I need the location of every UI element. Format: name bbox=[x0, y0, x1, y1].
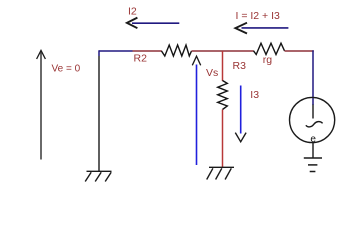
arrow I = I2 + I3 bbox=[242, 27, 289, 29]
arrow I2 bbox=[132, 22, 179, 24]
wire below source bbox=[312, 143, 314, 158]
wire red vertical lower bbox=[222, 110, 224, 168]
wire right vertical navy into source bbox=[312, 50, 314, 105]
svg-text:Ve = 0: Ve = 0 bbox=[52, 63, 81, 74]
node junction R3 branch: wire red vertical upper bbox=[222, 51, 224, 81]
wire horizontal maroon left of R2 bbox=[133, 50, 162, 52]
svg-text:rg: rg bbox=[263, 54, 272, 66]
ground middle bbox=[207, 167, 234, 179]
arrow I3 bbox=[240, 86, 242, 134]
resistor rg bbox=[254, 43, 285, 54]
source e: circle bbox=[290, 97, 335, 142]
svg-text:I3: I3 bbox=[250, 89, 259, 101]
source internal stem bbox=[312, 105, 314, 119]
resistor R2 bbox=[162, 45, 192, 56]
wire horizontal maroon R2 to rg bbox=[192, 50, 254, 52]
svg-text:R3: R3 bbox=[233, 60, 247, 72]
ground left bbox=[85, 171, 111, 181]
resistor R3 bbox=[218, 81, 228, 110]
arrow Vs bbox=[196, 65, 198, 166]
wire horizontal maroon right of rg bbox=[285, 50, 314, 52]
arrow Ve bbox=[40, 53, 42, 160]
svg-text:I = I2 + I3: I = I2 + I3 bbox=[236, 10, 281, 22]
wire top-left horizontal navy bbox=[99, 50, 133, 52]
source sine symbol bbox=[306, 122, 323, 127]
svg-text:I2: I2 bbox=[128, 6, 137, 18]
earth ground bbox=[304, 158, 322, 172]
svg-text:R2: R2 bbox=[134, 53, 148, 65]
wire left vertical black bbox=[98, 50, 100, 56]
svg-text:Vs: Vs bbox=[206, 67, 218, 79]
